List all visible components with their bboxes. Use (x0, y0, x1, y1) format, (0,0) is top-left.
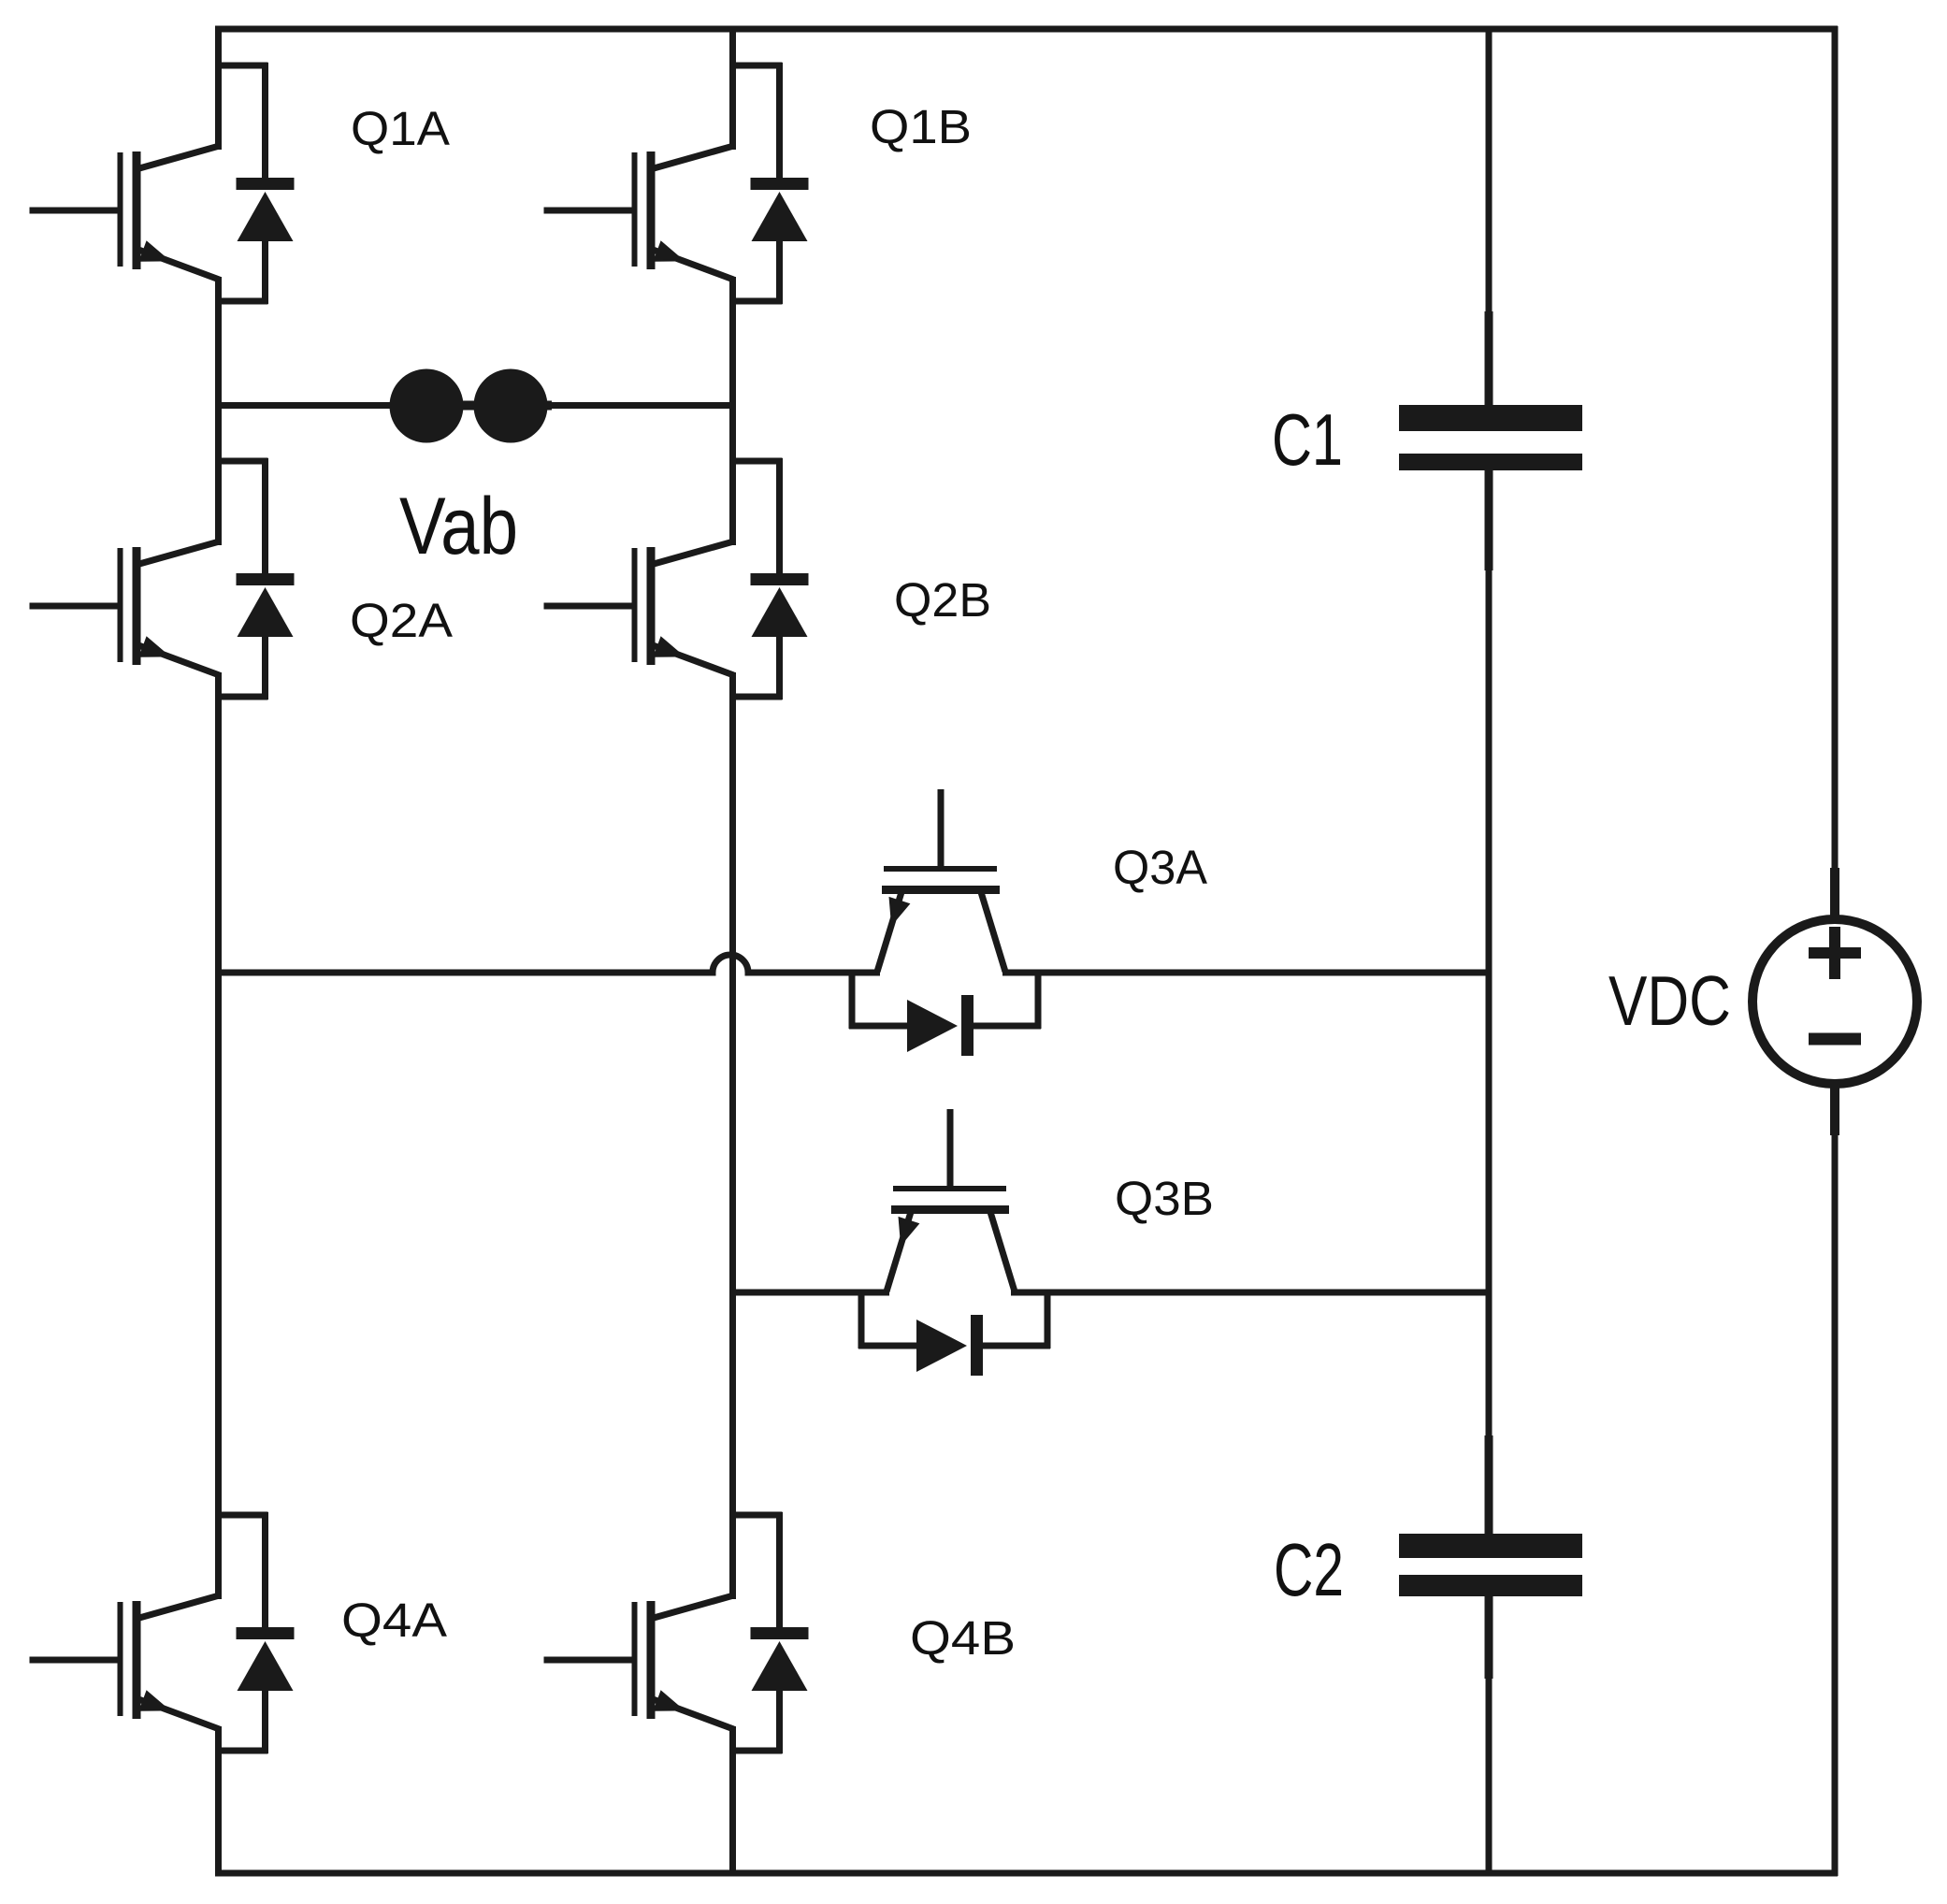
wire: phase-A midpoint to Q3A (hops over phase-B leg) (218, 955, 880, 973)
wire: top DC rail (215, 26, 1838, 33)
wire: bottom DC rail (215, 1870, 1838, 1877)
wire: Q3B to capacitor column (1011, 1290, 1492, 1296)
transistor Q2A (IGBT with antiparallel diode) (30, 458, 295, 700)
transistor Q4A (IGBT with antiparallel diode) (30, 1512, 295, 1753)
wire: capacitor column bottom (C2 to bottom rail) (1486, 1594, 1493, 1876)
wire: VDC top lead stub (1830, 868, 1839, 919)
svg-text:Q2B: Q2B (894, 573, 991, 627)
voltage source VDC (1752, 919, 1917, 1084)
node b: right Vab terminal dot (474, 369, 548, 443)
svg-text:Q1B: Q1B (870, 100, 972, 153)
wire: capacitor column top (top rail to C1) (1486, 26, 1493, 407)
transistor Q2B (IGBT with antiparallel diode) (544, 458, 809, 700)
wire: phase-A leg between Q2A emitter and Q4A collector (215, 672, 222, 1599)
svg-text:Q4B: Q4B (910, 1611, 1016, 1665)
wire: Q3A to capacitor midpoint node (1002, 970, 1492, 976)
wire: C1 top lead stub (1485, 311, 1493, 408)
wire: VDC branch upper (top rail to source +) (1832, 26, 1839, 919)
svg-text:C1: C1 (1272, 398, 1343, 481)
svg-text:Q3A: Q3A (1113, 841, 1207, 894)
wire: phase-B leg between Q2B emitter and Q4B collector (729, 672, 736, 1599)
wire: VDC bottom lead stub (1830, 1084, 1839, 1135)
wire: phase-B midpoint to Q3B (732, 1290, 889, 1296)
svg-text:Q3B: Q3B (1115, 1172, 1214, 1225)
wire: VDC branch lower (source - to bottom rail) (1832, 1084, 1839, 1876)
svg-text:VDC: VDC (1608, 961, 1731, 1040)
wire: C2 top lead stub (1485, 1435, 1493, 1536)
capacitor C1 (1399, 405, 1582, 470)
svg-text:Q1A: Q1A (351, 102, 450, 155)
transistor Q1B (IGBT with antiparallel diode) (544, 63, 809, 304)
wire: C2 bottom lead stub (1485, 1594, 1493, 1679)
svg-text:Q2A: Q2A (350, 594, 453, 647)
transistor Q3A (IGBT rotated, with antiparallel diode) (849, 789, 1041, 1056)
capacitor C2 (1399, 1534, 1582, 1596)
node a: left Vab terminal dot (390, 369, 464, 443)
wire: capacitor column middle (C1 to C2, node between caps) (1486, 469, 1493, 1536)
wire: phase-A leg between Q1A emitter and Q2A collector (215, 277, 222, 545)
transistor Q3B (IGBT rotated, with antiparallel diode) (858, 1109, 1050, 1376)
wire: phase-B leg between Q1B emitter and Q2B collector (729, 277, 736, 545)
wire: C1 bottom lead stub (1485, 469, 1493, 570)
svg-text:Vab: Vab (399, 482, 518, 571)
wire: phase-A leg lower (Q4A emitter to bottom rail) (215, 1726, 222, 1876)
wire: phase-A leg upper (top rail to Q1A collector) (215, 26, 222, 150)
wire: phase-B leg lower (Q4B emitter to bottom rail) (729, 1726, 736, 1876)
wire: thick lead into Vab terminals (391, 401, 552, 411)
svg-text:C2: C2 (1274, 1528, 1344, 1611)
transistor Q1A (IGBT with antiparallel diode) (30, 63, 295, 304)
svg-text:Q4A: Q4A (341, 1594, 447, 1647)
transistor Q4B (IGBT with antiparallel diode) (544, 1512, 809, 1753)
wire: phase-B leg upper (top rail to Q1B collector) (729, 26, 736, 150)
wire: Vab output row between phase legs (218, 402, 733, 409)
